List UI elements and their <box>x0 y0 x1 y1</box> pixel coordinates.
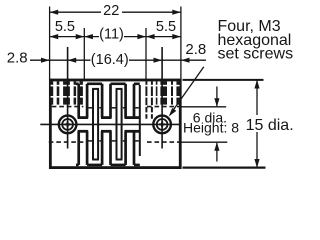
screw S2 vertical centerline <box>161 47 163 149</box>
svg-text:22: 22 <box>103 3 119 19</box>
dimension line 5.5 left <box>50 36 85 38</box>
svg-text:Height: 8: Height: 8 <box>183 119 239 135</box>
svg-text:2.8: 2.8 <box>185 41 206 58</box>
extension line 15 dia bottom <box>183 167 266 169</box>
slit meander: outer caps below top edge <box>76 83 140 86</box>
svg-text:2.8: 2.8 <box>7 50 28 67</box>
slit meander: U caps, top band <box>78 116 140 119</box>
hidden slit comb, left hub (dashed bars) <box>51 81 83 104</box>
bore hidden line, bottom (6 dia.) <box>49 141 179 143</box>
svg-text:5.5: 5.5 <box>55 19 75 35</box>
bore hidden line, top (6 dia.) <box>52 106 179 108</box>
bore line dashes visible in slit gaps, bottom <box>88 140 139 142</box>
dimension arrows 6 dia / Height 8 <box>216 87 218 107</box>
extension line right edge <box>180 7 182 80</box>
extension line bore top, right <box>181 106 226 108</box>
coupling body outline <box>50 80 180 168</box>
slit meander: outer caps above bottom edge <box>76 164 140 167</box>
extension line x=146 <box>145 28 147 79</box>
svg-text:(11): (11) <box>99 27 124 43</box>
svg-text:5.5: 5.5 <box>156 19 176 35</box>
dash gaps in right comb <box>145 85 179 114</box>
horizontal axis centerline <box>40 123 181 125</box>
extension line x=84.3 <box>83 28 85 79</box>
screw S1 vertical centerline <box>67 47 69 149</box>
leader line to set screw S2 <box>174 67 204 110</box>
dimension line (11) <box>84 36 146 38</box>
slit meander: thin inner channels crossing middle <box>92 85 140 160</box>
slit meander: thick U-slots, top band <box>79 84 134 118</box>
slit meander: U caps, bottom band <box>78 130 140 133</box>
set screw S2 (right) <box>153 116 171 134</box>
dash gaps in left comb <box>51 85 84 98</box>
extension line 15 dia top <box>183 79 264 81</box>
hidden slit comb, right hub (dashed bars) <box>145 81 179 118</box>
dimension line (16.4) with 2.8 extensions <box>30 59 206 61</box>
set screw S1 (left) <box>59 116 77 134</box>
slit meander: thick U-slots, bottom band <box>79 131 134 165</box>
svg-text:set screws: set screws <box>218 46 294 63</box>
dimension line 5.5 right <box>146 36 181 38</box>
extension line bore bottom, right <box>181 141 227 143</box>
svg-text:15 dia.: 15 dia. <box>246 117 294 134</box>
dimension line 22 <box>50 11 181 13</box>
svg-text:(16.4): (16.4) <box>91 52 129 68</box>
extension line left edge <box>49 7 51 80</box>
bore line dashes visible in slit gaps, top <box>88 107 139 109</box>
dimension line 15 dia <box>256 80 258 168</box>
